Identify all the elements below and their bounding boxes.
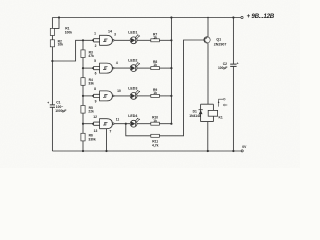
svg-text:+ 9В...12В: + 9В...12В xyxy=(247,13,275,20)
node gate2 input xyxy=(82,67,84,69)
svg-text:K1: K1 xyxy=(219,115,223,119)
terminal +V xyxy=(241,16,243,18)
op gate U1D (4093 schmitt NAND) xyxy=(100,119,113,129)
wire Q1 emitter to +V rail xyxy=(207,18,209,37)
wire node to R3 xyxy=(82,40,84,50)
wire R8 to +V bus xyxy=(159,67,171,69)
wire C2 to 0V rail xyxy=(232,66,234,151)
svg-text:LED2: LED2 xyxy=(128,59,137,63)
wire LED1 to R7 xyxy=(137,39,151,41)
svg-text:1k: 1k xyxy=(153,63,157,67)
wire Q1 collector to relay xyxy=(207,43,209,104)
resistor R5 xyxy=(81,106,85,114)
svg-text:6: 6 xyxy=(95,72,97,76)
svg-text:13: 13 xyxy=(94,129,98,133)
wire node to R4 xyxy=(82,68,84,78)
capacitor C1 xyxy=(50,105,55,107)
svg-text:8: 8 xyxy=(94,87,96,91)
svg-text:4: 4 xyxy=(116,61,118,65)
relay coil K1 xyxy=(208,110,217,116)
svg-text:D1: D1 xyxy=(193,109,197,113)
node C2 / +V rail xyxy=(232,16,234,18)
wire node to R5 xyxy=(82,96,84,106)
resistor R1 xyxy=(50,28,54,35)
gate U1B output bubble xyxy=(113,67,115,69)
node relay / 0V rail xyxy=(207,150,209,152)
svg-text:22k: 22k xyxy=(88,110,94,114)
LED2 xyxy=(130,65,137,72)
resistor R10 xyxy=(151,122,160,125)
svg-text:3: 3 xyxy=(114,32,116,36)
wire gate4 output to LED4 xyxy=(114,123,130,125)
node input tie xyxy=(92,67,94,69)
wire R6 to next node xyxy=(82,141,84,151)
node R7 / bus xyxy=(170,39,172,41)
node gate3 input xyxy=(82,95,84,97)
wire R2 down to C1 xyxy=(51,47,53,105)
gate U1B input tie xyxy=(94,67,100,70)
wire R9 to +V bus xyxy=(159,95,171,97)
svg-text:14: 14 xyxy=(108,30,112,34)
wire relay to 0V rail xyxy=(207,122,209,151)
node left rail / gate feed xyxy=(51,60,53,62)
resistor R7 xyxy=(151,39,160,42)
op gate U1B (4093 schmitt NAND) xyxy=(100,63,113,73)
svg-text:9: 9 xyxy=(95,100,97,104)
wire left rail top segment xyxy=(51,18,53,29)
capacitor C2 xyxy=(230,64,236,66)
wire R4 to next node xyxy=(82,85,84,96)
wire R5 to next node xyxy=(82,113,84,124)
svg-text:1000µF: 1000µF xyxy=(55,109,66,113)
gate U1D input tie xyxy=(94,122,100,125)
svg-text:LED3: LED3 xyxy=(128,86,137,90)
LED4 xyxy=(130,120,137,127)
svg-text:10k: 10k xyxy=(58,43,64,47)
node emitter / +V rail xyxy=(207,17,209,19)
wire gate3 output to LED3 xyxy=(114,95,130,97)
node R10 / bus xyxy=(170,123,172,125)
svg-text:12: 12 xyxy=(93,115,97,119)
svg-text:1k: 1k xyxy=(153,35,157,39)
svg-text:+: + xyxy=(237,61,239,65)
wire top +V rail xyxy=(52,17,240,19)
LED3 xyxy=(130,93,137,100)
svg-text:+: + xyxy=(47,101,49,105)
svg-text:Q1: Q1 xyxy=(216,38,221,42)
wire pin7 to 0V rail xyxy=(106,129,108,152)
svg-text:1: 1 xyxy=(94,31,96,35)
wire LED3 to R9 xyxy=(137,95,151,97)
paper background xyxy=(0,0,300,168)
svg-text:1k: 1k xyxy=(153,91,157,95)
svg-text:LED4: LED4 xyxy=(128,114,137,118)
wire input node to gate2 xyxy=(83,67,94,69)
wire LED2 to R8 xyxy=(137,67,151,69)
svg-text:7: 7 xyxy=(109,130,111,134)
svg-text:11: 11 xyxy=(116,117,120,121)
svg-text:33k: 33k xyxy=(88,82,94,86)
LED1 xyxy=(130,37,137,44)
wire D1/K1 parallel loop xyxy=(201,104,214,121)
node gate4 output / R11 tap xyxy=(125,123,127,125)
node input tie xyxy=(92,95,94,97)
transistor Q1 2N2907 xyxy=(204,37,210,43)
wire LED4 to R10 xyxy=(137,123,151,125)
svg-text:100k: 100k xyxy=(65,31,73,35)
svg-text:100µF: 100µF xyxy=(218,66,227,70)
wire gate4 output tap down xyxy=(126,124,151,136)
wire divider feed to gate1 input xyxy=(52,40,93,61)
node input tie xyxy=(92,123,94,125)
node R6 / 0V rail xyxy=(82,150,84,152)
wire R7 to +V bus xyxy=(159,39,171,41)
op gate U1C (4093 schmitt NAND) xyxy=(100,91,113,101)
relay contact K1 switch xyxy=(219,99,224,106)
wire jumper loop at R1 top xyxy=(52,18,59,29)
svg-text:10: 10 xyxy=(117,89,121,93)
wire R10 to +V bus xyxy=(159,123,171,125)
wire gate1 output to LED1 xyxy=(114,39,130,41)
node R9 / bus xyxy=(170,95,172,97)
wire input node to gate3 xyxy=(83,95,94,97)
wire R3 to next node xyxy=(82,58,84,69)
resistor R11 xyxy=(151,134,160,137)
svg-text:2N2907: 2N2907 xyxy=(214,43,227,47)
gate U1A input tie xyxy=(94,39,100,42)
svg-text:1N4148: 1N4148 xyxy=(189,114,201,118)
op gate U1A (4093 schmitt NAND) xyxy=(100,35,113,45)
node gate1 input xyxy=(82,39,84,41)
node input tie xyxy=(92,39,94,41)
svg-text:100~: 100~ xyxy=(56,105,64,109)
svg-text:47k: 47k xyxy=(88,54,94,58)
terminal 0V xyxy=(241,150,243,152)
gate U1A output bubble xyxy=(113,40,115,42)
resistor R3 xyxy=(81,50,85,58)
node bus / +V rail xyxy=(170,16,172,18)
diode D1 1N4148 xyxy=(199,109,203,111)
wire gate2 output to LED2 xyxy=(114,67,130,69)
resistor R6 xyxy=(81,133,85,141)
svg-text:330k: 330k xyxy=(88,137,96,141)
wire LED return bus to +V rail xyxy=(170,18,172,124)
resistor R9 xyxy=(151,94,160,97)
node C2 / 0V rail xyxy=(232,150,234,152)
node R8 / bus xyxy=(170,67,172,69)
resistor R8 xyxy=(151,67,160,70)
svg-text:5: 5 xyxy=(94,59,96,63)
resistor R2 xyxy=(50,40,54,47)
gate U1D output bubble xyxy=(113,123,115,125)
gate U1C input tie xyxy=(94,94,100,97)
wire R1 to R2 xyxy=(51,36,53,40)
node gate4 input xyxy=(82,123,84,125)
gate U1C output bubble xyxy=(113,95,115,97)
wire C1 to bottom rail xyxy=(51,107,53,151)
wire +V rail to C2 xyxy=(232,18,234,65)
wire node to R6 xyxy=(82,124,84,134)
svg-text:4,7k: 4,7k xyxy=(152,143,159,147)
node pin7 / 0V rail xyxy=(105,150,107,152)
wire bottom 0V rail xyxy=(52,150,241,152)
resistor R4 xyxy=(81,78,85,86)
wire R11 to Q1 base xyxy=(159,40,204,136)
wire input node to gate4 xyxy=(83,123,94,125)
node jumper/rail junction xyxy=(58,16,60,18)
svg-text:1k: 1k xyxy=(153,119,157,123)
svg-text:LED1: LED1 xyxy=(128,31,137,35)
svg-text:2: 2 xyxy=(95,44,97,48)
